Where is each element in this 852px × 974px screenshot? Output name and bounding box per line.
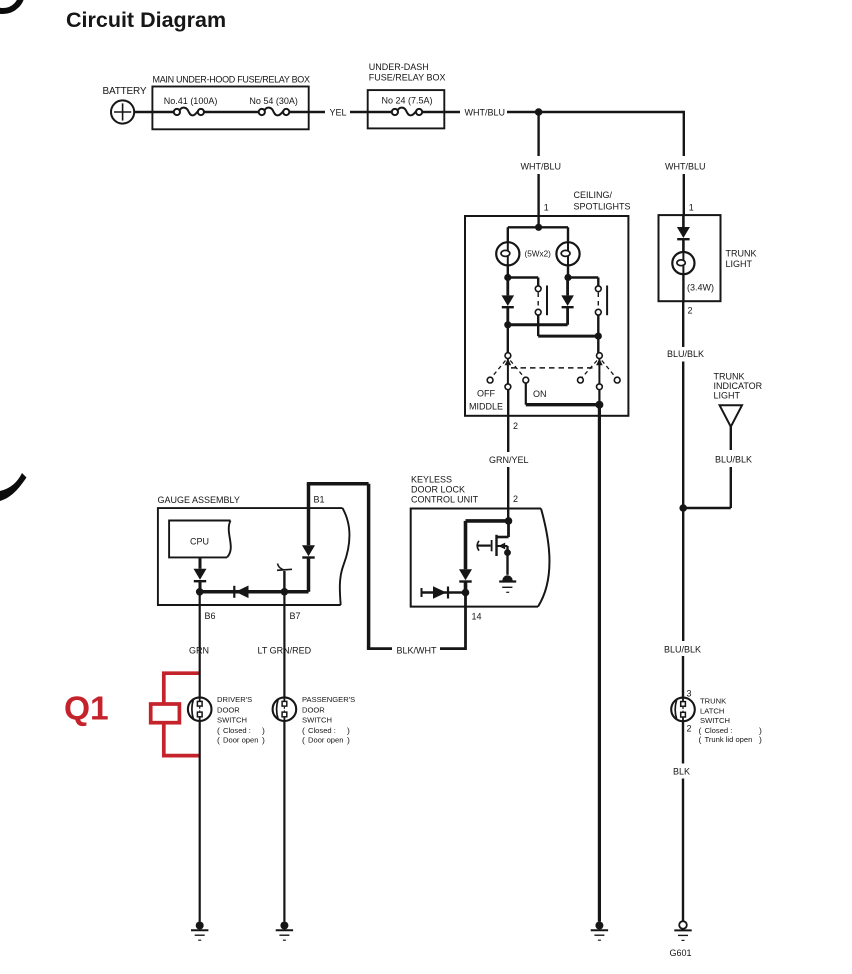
door switch contact 1 lower xyxy=(535,309,541,315)
svg-text:ON: ON xyxy=(533,389,547,399)
wire between fuses xyxy=(204,111,259,113)
B7 stub with curl xyxy=(277,564,292,592)
svg-text:(: ( xyxy=(302,735,305,745)
junction keyless pin14 xyxy=(462,589,470,597)
junction right bulb xyxy=(564,274,571,281)
diode right ceiling xyxy=(561,278,574,325)
svg-text:Door open: Door open xyxy=(223,736,258,745)
wire YEL to under-dash box xyxy=(350,111,392,113)
selector right pole line xyxy=(598,359,600,385)
wire switch2 lower drop xyxy=(597,315,599,353)
svg-text:MIDDLE: MIDDLE xyxy=(469,402,503,412)
wire keyless left vertical xyxy=(464,521,468,569)
label (Closed : Door open) driver xyxy=(217,726,265,746)
wire left WHT/BLU vertical upper xyxy=(537,112,539,156)
diode gauge B6 xyxy=(194,569,207,592)
wire trunk vertical to junction xyxy=(682,362,684,642)
selector right arm left (dashed) xyxy=(582,361,597,378)
junction diode bus left xyxy=(504,321,511,328)
svg-text:GAUGE ASSEMBLY: GAUGE ASSEMBLY xyxy=(158,495,240,505)
svg-text:KEYLESS: KEYLESS xyxy=(411,475,452,485)
svg-text:OFF: OFF xyxy=(477,389,495,399)
wire keyless pin14 riser xyxy=(464,593,467,651)
bulb left (5W) xyxy=(496,242,519,265)
svg-text:Circuit Diagram: Circuit Diagram xyxy=(66,8,226,32)
svg-text:Closed :: Closed : xyxy=(308,726,336,735)
passenger's door switch xyxy=(273,697,297,721)
svg-text:): ) xyxy=(347,726,350,736)
svg-text:): ) xyxy=(262,735,265,745)
selector right contact left xyxy=(578,377,584,383)
svg-text:SWITCH: SWITCH xyxy=(217,715,247,724)
junction top rail xyxy=(535,108,543,116)
svg-text:Door open: Door open xyxy=(308,736,343,745)
fuse No.54 (30A) xyxy=(259,108,290,116)
switch2 actuator bar xyxy=(606,286,608,316)
junction ceiling pin1 xyxy=(535,224,542,231)
svg-text:BLK/WHT: BLK/WHT xyxy=(397,646,438,656)
svg-text:G601: G601 xyxy=(670,948,692,958)
wire CPU to diode xyxy=(199,557,202,568)
keyless door lock control unit box xyxy=(411,509,550,607)
wire diode bus B xyxy=(538,335,598,338)
junction trunk indicator xyxy=(679,504,687,512)
switch2 dashed link xyxy=(597,293,599,309)
CPU box xyxy=(169,521,231,558)
ground G (LT GRN/RED) xyxy=(276,922,293,941)
selector left arm to ON (dashed) xyxy=(510,361,524,378)
junction left bulb xyxy=(504,274,511,281)
svg-text:BLU/BLK: BLU/BLK xyxy=(664,645,701,655)
junction bus B right xyxy=(595,333,602,340)
svg-text:): ) xyxy=(347,735,350,745)
svg-text:LIGHT: LIGHT xyxy=(714,391,741,401)
diode trunk light xyxy=(677,215,690,252)
wire switch2 drop xyxy=(597,278,599,287)
driver's door switch xyxy=(188,697,212,721)
junction ON output xyxy=(595,401,603,409)
svg-text:LATCH: LATCH xyxy=(700,707,724,716)
svg-text:): ) xyxy=(759,735,762,745)
wire switch1 drop xyxy=(537,278,539,287)
wire left WHT/BLU vertical lower xyxy=(537,174,539,227)
wire right WHT/BLU vertical upper xyxy=(683,111,685,156)
trunk light box xyxy=(659,215,721,301)
wire ceiling pin2 output xyxy=(507,390,509,452)
wire keyless top horizontal xyxy=(466,519,509,523)
wire to right bulb xyxy=(567,227,569,242)
gauge assembly box xyxy=(158,508,349,605)
svg-text:BLU/BLK: BLU/BLK xyxy=(667,349,704,359)
ground G (spotlight) xyxy=(591,922,608,941)
wire battery to fuse box xyxy=(134,111,174,113)
ground keyless internal xyxy=(499,575,516,592)
wire to left bulb xyxy=(507,227,509,242)
svg-text:CONTROL UNIT: CONTROL UNIT xyxy=(411,495,479,505)
wire latch to BLK xyxy=(682,721,684,763)
wire B1 top horizontal xyxy=(307,482,369,486)
wire left junction to switch1 xyxy=(508,276,538,278)
svg-text:2: 2 xyxy=(513,421,518,431)
wire gauge bus horizontal xyxy=(200,590,309,594)
wire right MIDDLE down to junction xyxy=(598,390,600,405)
wire indicator down lower xyxy=(730,467,732,508)
svg-text:2: 2 xyxy=(687,724,692,734)
junction keyless pin2 xyxy=(505,517,513,525)
wire GRN upper xyxy=(199,641,201,698)
selector right arm right (dashed) xyxy=(602,361,616,378)
wire indicator to trunk main xyxy=(683,507,731,509)
wire right junction to switch2 xyxy=(568,276,598,278)
red resistor box xyxy=(151,704,180,723)
wire right WHT/BLU vertical lower xyxy=(683,174,685,215)
svg-text:YEL: YEL xyxy=(330,108,347,118)
wire switch1 lower drop xyxy=(537,315,539,336)
trunk indicator light triangle xyxy=(720,405,742,426)
wire ON branch down xyxy=(525,383,527,405)
red jumper top xyxy=(164,673,200,704)
selector left MIDDLE contact xyxy=(505,384,511,390)
svg-text:3: 3 xyxy=(687,689,692,699)
svg-text:2: 2 xyxy=(688,306,693,316)
wire trunk vertical upper xyxy=(682,301,684,347)
svg-text:(: ( xyxy=(217,735,220,745)
wire keyless bottom horizontal xyxy=(422,591,466,594)
wire spotlight ground run xyxy=(598,405,601,922)
ground G601 xyxy=(674,921,691,940)
svg-text:1: 1 xyxy=(689,203,694,213)
svg-text:UNDER-DASH: UNDER-DASH xyxy=(369,62,429,72)
svg-text:WHT/BLU: WHT/BLU xyxy=(521,162,562,172)
svg-text:FUSE/RELAY BOX: FUSE/RELAY BOX xyxy=(369,73,446,83)
svg-text:DOOR: DOOR xyxy=(302,705,325,714)
svg-text:Trunk lid open: Trunk lid open xyxy=(705,735,753,744)
switch1 actuator bar xyxy=(546,286,548,316)
svg-text:TRUNK: TRUNK xyxy=(726,249,757,259)
svg-text:(: ( xyxy=(699,735,702,745)
svg-text:INDICATOR: INDICATOR xyxy=(714,381,763,391)
diode gauge B1 xyxy=(302,545,315,592)
wire B1 net vertical right xyxy=(367,484,371,649)
svg-text:TRUNK: TRUNK xyxy=(714,372,745,382)
svg-text:1: 1 xyxy=(544,203,549,213)
svg-text:(3.4W): (3.4W) xyxy=(687,283,714,293)
junction B7 xyxy=(281,588,289,596)
svg-text:DOOR: DOOR xyxy=(217,705,240,714)
ceiling/spotlights box xyxy=(465,216,628,416)
door switch contact 2 upper xyxy=(595,286,601,292)
svg-text:WHT/BLU: WHT/BLU xyxy=(465,108,506,118)
wire indicator down upper xyxy=(730,427,732,450)
svg-text:Closed :: Closed : xyxy=(223,726,251,735)
T-bar stub left xyxy=(421,588,423,597)
selector left arm to OFF (dashed) xyxy=(492,361,506,378)
scan artifact left-middle xyxy=(0,473,27,502)
wire under-dash box to WHT/BLU label xyxy=(422,111,460,113)
wire left bulb down xyxy=(507,265,509,277)
svg-text:SWITCH: SWITCH xyxy=(700,716,730,725)
svg-text:): ) xyxy=(262,726,265,736)
bulb right (5W) xyxy=(556,242,579,265)
svg-text:(: ( xyxy=(217,726,220,736)
svg-text:BLK: BLK xyxy=(673,767,690,777)
under-dash fuse/relay box xyxy=(368,90,445,128)
svg-text:BATTERY: BATTERY xyxy=(103,86,147,97)
svg-text:2: 2 xyxy=(513,494,518,504)
svg-text:B6: B6 xyxy=(205,611,216,621)
svg-text:BLU/BLK: BLU/BLK xyxy=(715,455,752,465)
svg-text:CPU: CPU xyxy=(190,537,209,547)
svg-text:GRN/YEL: GRN/YEL xyxy=(489,455,529,465)
svg-text:SWITCH: SWITCH xyxy=(302,715,332,724)
wire diode bus A xyxy=(508,323,568,326)
svg-text:DRIVER'S: DRIVER'S xyxy=(217,695,252,704)
wire LT GRN/RED upper xyxy=(283,641,285,698)
selector right common contact xyxy=(597,353,603,359)
fuse No.41 (100A) xyxy=(174,108,204,116)
svg-text:SPOTLIGHTS: SPOTLIGHTS xyxy=(574,202,631,212)
svg-text:DOOR LOCK: DOOR LOCK xyxy=(411,485,465,495)
svg-text:No 24 (7.5A): No 24 (7.5A) xyxy=(382,96,433,106)
wire GRN lower xyxy=(199,721,201,922)
wire left selector feed xyxy=(507,325,509,353)
junction B6 xyxy=(196,588,204,596)
door switch contact 1 upper xyxy=(535,286,541,292)
svg-text:Q1: Q1 xyxy=(64,691,109,728)
svg-text:LIGHT: LIGHT xyxy=(726,259,753,269)
selector left pole line xyxy=(507,359,509,385)
diode left ceiling xyxy=(502,278,515,325)
main under-hood fuse/relay box xyxy=(152,87,308,130)
wire ON branch horizontal xyxy=(526,403,600,406)
svg-text:(: ( xyxy=(302,726,305,736)
wire B7 out of box xyxy=(283,592,285,641)
wire right bulb down xyxy=(567,265,569,277)
battery xyxy=(111,100,134,123)
svg-text:CEILING/: CEILING/ xyxy=(574,190,613,200)
selector left ON contact xyxy=(523,377,529,383)
svg-text:No.41 (100A): No.41 (100A) xyxy=(164,96,218,106)
scan artifact top-left xyxy=(0,0,22,11)
svg-text:TRUNK: TRUNK xyxy=(700,697,726,706)
wire WHT/BLU to right corner xyxy=(507,111,684,113)
wire LT GRN/RED lower xyxy=(283,721,285,922)
selector left arm arrowhead xyxy=(505,359,512,366)
wire BLK to ground xyxy=(682,779,684,922)
selector left common contact xyxy=(505,353,511,359)
wire B6 out of box xyxy=(199,592,201,641)
switch1 dashed link xyxy=(537,293,539,309)
svg-text:14: 14 xyxy=(472,612,482,622)
svg-text:B1: B1 xyxy=(314,495,325,505)
transistor Q (keyless output) xyxy=(477,521,511,575)
bulb trunk light (3.4W) xyxy=(672,252,694,274)
selector right MIDDLE contact xyxy=(597,384,603,390)
diode keyless vertical xyxy=(459,569,472,592)
wire BLK/WHT right segment xyxy=(440,647,466,650)
svg-text:WHT/BLU: WHT/BLU xyxy=(665,162,706,172)
label (Closed : Trunk lid open) xyxy=(699,726,763,745)
svg-text:No 54 (30A): No 54 (30A) xyxy=(249,96,298,106)
selector right contact right xyxy=(614,377,620,383)
trunk latch switch xyxy=(671,698,695,722)
svg-text:B7: B7 xyxy=(290,611,301,621)
red jumper bottom xyxy=(164,723,200,756)
svg-text:Closed :: Closed : xyxy=(705,726,733,735)
label (Closed : Door open) passenger xyxy=(302,726,350,746)
door switch contact 2 lower xyxy=(595,309,601,315)
svg-text:(5Wx2): (5Wx2) xyxy=(525,250,552,259)
diode keyless horizontal (points right) xyxy=(433,586,448,598)
wire to latch switch xyxy=(682,656,684,698)
wire B1 drop into gauge xyxy=(307,484,311,545)
ground G (GRN) xyxy=(191,922,208,941)
fuse No 24 (7.5A) xyxy=(392,108,422,116)
svg-text:PASSENGER'S: PASSENGER'S xyxy=(302,695,355,704)
svg-text:MAIN UNDER-HOOD FUSE/RELAY BOX: MAIN UNDER-HOOD FUSE/RELAY BOX xyxy=(153,75,310,85)
selector right arm arrowhead xyxy=(596,359,603,366)
wire BLK/WHT left segment xyxy=(367,647,392,650)
mechanical link dashed xyxy=(511,367,596,369)
wire bulb feed bar xyxy=(508,226,568,228)
wire bulb to box bottom xyxy=(682,274,684,301)
wire GRN/YEL lower xyxy=(507,467,509,521)
diode gauge bus (points left) xyxy=(234,586,248,599)
selector left OFF contact xyxy=(487,377,493,383)
wire fuse box to YEL label xyxy=(289,111,325,113)
